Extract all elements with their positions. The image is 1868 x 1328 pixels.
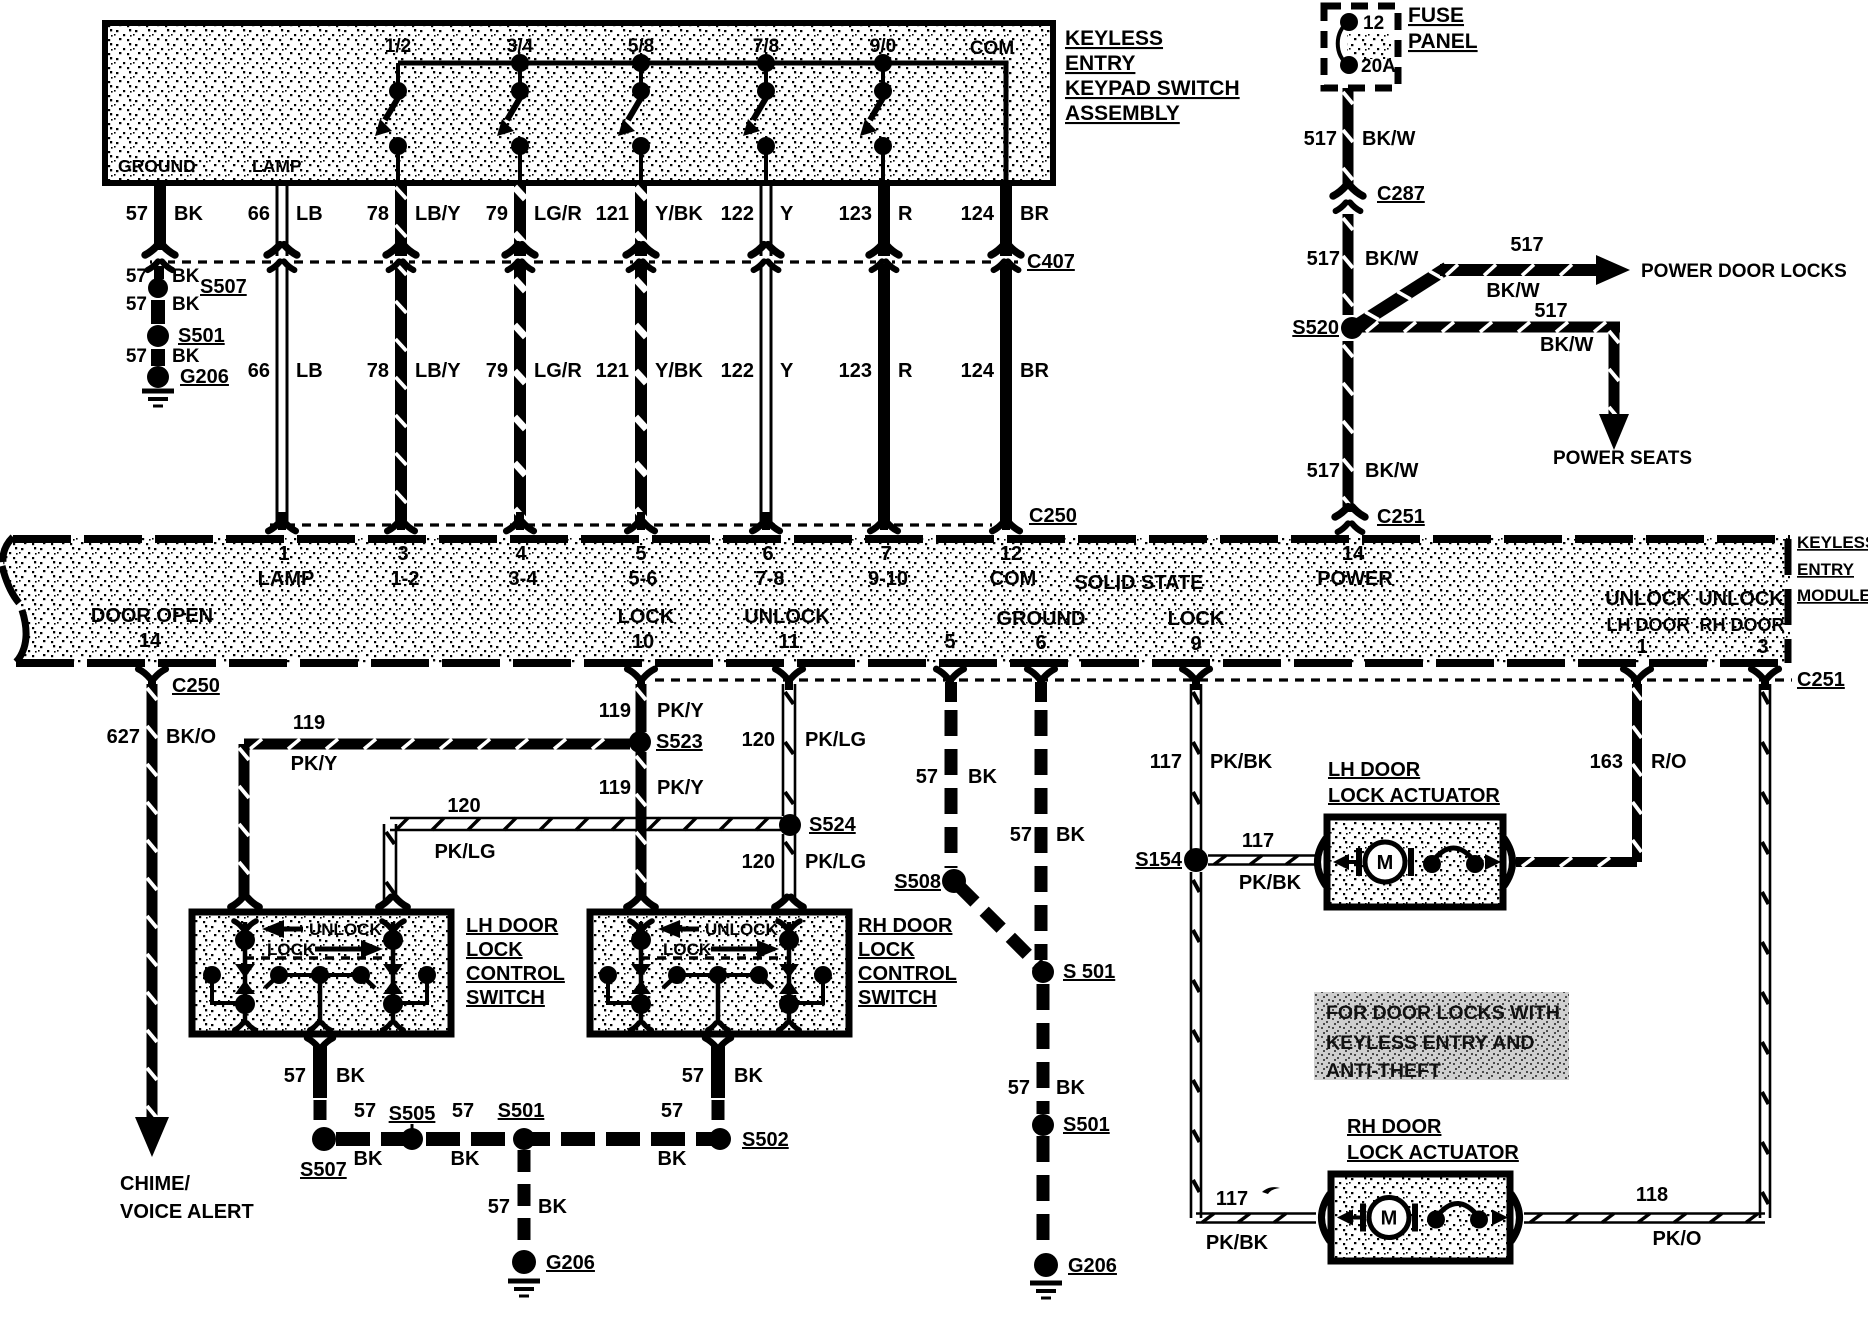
splice S507 <box>126 266 247 298</box>
connector C251 dashed line below module <box>655 669 1845 691</box>
connector C250 at wire 79 <box>506 512 533 531</box>
svg-text:PK/Y: PK/Y <box>657 777 704 799</box>
LH door lock control switch <box>192 897 451 1034</box>
svg-text:R/O: R/O <box>1651 751 1687 773</box>
svg-text:VOICE ALERT: VOICE ALERT <box>120 1201 254 1223</box>
splice S508 <box>894 869 966 893</box>
splice S523 <box>629 731 703 753</box>
svg-text:LB/Y: LB/Y <box>415 203 461 225</box>
svg-text:R: R <box>898 360 913 382</box>
svg-text:M: M <box>1381 1208 1398 1230</box>
keypad switch 5/8 <box>618 36 654 182</box>
svg-text:SOLID STATE: SOLID STATE <box>1074 572 1203 594</box>
branch wire 517 BK/W to power door locks <box>1356 234 1596 326</box>
svg-text:517: 517 <box>1534 300 1567 322</box>
svg-text:120: 120 <box>742 851 775 873</box>
branch wire 517 BK/W to power seats <box>1360 300 1620 420</box>
svg-text:BK: BK <box>354 1148 383 1170</box>
svg-text:120: 120 <box>447 795 480 817</box>
wire pin3 to RH actuator 118 PK/O <box>1524 684 1770 1250</box>
module bottom pin labels <box>91 588 1785 658</box>
svg-text:119: 119 <box>293 712 325 734</box>
svg-text:ENTRY: ENTRY <box>1065 52 1135 75</box>
svg-text:BK: BK <box>172 294 200 315</box>
svg-text:BK/W: BK/W <box>1486 280 1539 302</box>
svg-text:UNLOCK: UNLOCK <box>705 920 778 939</box>
svg-text:S501: S501 <box>178 325 225 347</box>
wire 123 R keypad <box>839 183 913 526</box>
COM bus wire <box>398 63 1006 182</box>
svg-text:RH DOOR: RH DOOR <box>1347 1116 1442 1138</box>
svg-text:UNLOCK: UNLOCK <box>1698 588 1784 610</box>
wire 66 LB keypad <box>248 183 323 526</box>
wire 117 PK/BK S154 down to RH actuator <box>1191 872 1316 1254</box>
svg-text:57: 57 <box>1010 824 1032 846</box>
svg-text:124: 124 <box>961 203 995 225</box>
connector C250 at wire 122 <box>752 512 779 531</box>
wire 57 BK to G206 <box>1037 1136 1050 1252</box>
RH door lock actuator <box>1322 1116 1520 1261</box>
svg-text:BR: BR <box>1020 203 1049 225</box>
svg-text:POWER SEATS: POWER SEATS <box>1553 448 1692 469</box>
svg-text:7-8: 7-8 <box>756 568 785 590</box>
svg-text:9/0: 9/0 <box>870 36 896 57</box>
svg-text:517: 517 <box>1510 234 1543 256</box>
svg-text:5/8: 5/8 <box>628 36 654 57</box>
svg-text:10: 10 <box>632 631 654 653</box>
svg-text:S520: S520 <box>1292 317 1339 339</box>
connector C250 at wire 124 <box>992 512 1019 531</box>
svg-text:123: 123 <box>839 203 872 225</box>
splice S154 <box>1135 848 1208 872</box>
svg-text:BK: BK <box>336 1065 365 1087</box>
ground G206 left <box>142 366 229 406</box>
svg-text:1/2: 1/2 <box>385 36 411 57</box>
ground G206 bottom center <box>508 1250 595 1296</box>
connector C250 dashed line <box>270 505 1077 527</box>
connector C407 at wire 124 <box>991 245 1021 270</box>
arrow chime/voice alert <box>120 1117 254 1223</box>
svg-text:C251: C251 <box>1377 506 1425 528</box>
svg-text:66: 66 <box>248 203 270 225</box>
svg-text:R: R <box>898 203 913 225</box>
wire 57 BK S507-S501 <box>126 294 200 324</box>
svg-text:Y/BK: Y/BK <box>655 203 703 225</box>
splice S501 lower <box>1032 1114 1110 1136</box>
svg-text:517: 517 <box>1307 460 1340 482</box>
wire 117 PK/BK pin9 to S154 <box>1150 684 1273 850</box>
svg-text:C250: C250 <box>172 675 220 697</box>
wire 121 Y/BK keypad <box>596 183 704 526</box>
svg-text:BK/W: BK/W <box>1362 128 1415 150</box>
svg-text:79: 79 <box>486 360 508 382</box>
svg-text:S508: S508 <box>894 871 941 893</box>
connector C250 at wire 123 <box>870 512 897 531</box>
wire 122 Y keypad <box>721 183 794 526</box>
svg-text:MODULE: MODULE <box>1797 586 1868 605</box>
svg-text:7: 7 <box>880 543 891 565</box>
svg-text:LAMP: LAMP <box>252 156 302 176</box>
svg-text:CONTROL: CONTROL <box>466 963 565 985</box>
svg-text:121: 121 <box>596 203 629 225</box>
wire 517 BK/W S520 to C251 <box>1307 341 1419 512</box>
svg-text:119: 119 <box>599 777 631 799</box>
svg-text:1-2: 1-2 <box>391 568 420 590</box>
svg-text:627: 627 <box>107 726 140 748</box>
svg-text:BK/W: BK/W <box>1365 460 1418 482</box>
svg-text:57: 57 <box>126 203 148 225</box>
module bottom pin fork x=950 <box>936 669 963 690</box>
svg-text:LH DOOR: LH DOOR <box>466 915 559 937</box>
connector C251 at module pin 14 <box>1335 506 1425 532</box>
wire 57 BK keypad <box>126 183 204 250</box>
svg-text:123: 123 <box>839 360 872 382</box>
svg-text:117: 117 <box>1216 1188 1248 1210</box>
module bottom pin fork x=789 <box>775 669 802 690</box>
splice S520 <box>1292 317 1363 339</box>
svg-text:6: 6 <box>1035 632 1046 654</box>
svg-text:121: 121 <box>596 360 629 382</box>
svg-text:BK: BK <box>172 266 200 287</box>
fuse panel box <box>1324 6 1398 88</box>
module title <box>1797 533 1868 605</box>
svg-text:57: 57 <box>126 346 147 367</box>
arrow power seats <box>1553 414 1692 469</box>
connector C407 at wire 79 <box>505 245 535 270</box>
module bottom pin fork x=1196 <box>1182 669 1209 690</box>
svg-text:118: 118 <box>1636 1184 1668 1206</box>
svg-text:1: 1 <box>1636 636 1647 658</box>
connector C250 label below pin 14 <box>172 675 220 697</box>
svg-text:S524: S524 <box>809 814 857 836</box>
svg-text:SWITCH: SWITCH <box>466 987 545 1009</box>
svg-text:163: 163 <box>1590 751 1623 773</box>
svg-text:LH DOOR: LH DOOR <box>1607 615 1690 635</box>
svg-text:57: 57 <box>661 1100 683 1122</box>
ground G206 center-right <box>1030 1253 1117 1298</box>
svg-text:PK/LG: PK/LG <box>805 729 866 751</box>
svg-text:PANEL: PANEL <box>1408 30 1478 53</box>
connector C407 at wire 78 <box>386 245 416 270</box>
svg-text:20A: 20A <box>1361 56 1396 77</box>
svg-text:122: 122 <box>721 203 754 225</box>
svg-text:KEYLESS: KEYLESS <box>1797 533 1868 552</box>
svg-text:FOR DOOR LOCKS WITH: FOR DOOR LOCKS WITH <box>1326 1002 1560 1024</box>
svg-text:BK: BK <box>1056 824 1085 846</box>
connector C407 at wire 122 <box>751 245 781 270</box>
wire 117 PK/BK S154 to LH actuator <box>1208 830 1316 894</box>
svg-text:117: 117 <box>1242 830 1274 852</box>
svg-text:Y: Y <box>780 203 794 225</box>
svg-text:BK/W: BK/W <box>1365 248 1418 270</box>
LH door lock actuator <box>1318 759 1513 907</box>
svg-text:S501: S501 <box>1063 1114 1110 1136</box>
svg-text:57: 57 <box>1008 1077 1030 1099</box>
svg-text:G206: G206 <box>1068 1255 1117 1277</box>
svg-text:PK/Y: PK/Y <box>657 700 704 722</box>
wire 119 PK/Y horizontal branch <box>239 712 631 900</box>
splice S524 <box>779 814 857 836</box>
svg-text:122: 122 <box>721 360 754 382</box>
svg-text:120: 120 <box>742 729 775 751</box>
svg-text:57: 57 <box>284 1065 306 1087</box>
svg-text:117: 117 <box>1150 751 1182 773</box>
connector C407 at wire 66 <box>267 245 297 270</box>
svg-text:DOOR OPEN: DOOR OPEN <box>91 605 213 627</box>
svg-text:PK/BK: PK/BK <box>1210 751 1273 773</box>
svg-text:LAMP: LAMP <box>258 568 315 590</box>
svg-text:POWER: POWER <box>1317 568 1393 590</box>
wire 627 BK/O <box>107 684 216 1122</box>
splice S507 bottom <box>300 1127 347 1181</box>
svg-text:BK: BK <box>172 346 200 367</box>
svg-text:G206: G206 <box>180 366 229 388</box>
wire 57 BK splice bus <box>336 1100 712 1170</box>
svg-text:3/4: 3/4 <box>507 36 534 57</box>
svg-text:3: 3 <box>397 543 408 565</box>
wire 57 BK S501-G206 <box>126 346 200 367</box>
LH switch bottom pin wire 57 BK <box>284 1038 366 1128</box>
svg-text:57: 57 <box>354 1100 376 1122</box>
svg-text:LOCK ACTUATOR: LOCK ACTUATOR <box>1347 1142 1519 1164</box>
svg-text:57: 57 <box>682 1065 704 1087</box>
svg-text:CONTROL: CONTROL <box>858 963 957 985</box>
svg-text:GROUND: GROUND <box>118 156 196 176</box>
svg-text:M: M <box>1377 852 1394 874</box>
svg-text:14: 14 <box>139 630 162 652</box>
svg-text:POWER DOOR LOCKS: POWER DOOR LOCKS <box>1641 261 1847 282</box>
svg-text:ASSEMBLY: ASSEMBLY <box>1065 102 1180 125</box>
svg-text:LB: LB <box>296 360 323 382</box>
keypad assembly title <box>1065 27 1240 125</box>
fuse 12 20A <box>1338 13 1396 77</box>
svg-text:RH DOOR: RH DOOR <box>858 915 953 937</box>
svg-text:PK/O: PK/O <box>1653 1228 1702 1250</box>
svg-text:SWITCH: SWITCH <box>858 987 937 1009</box>
svg-text:78: 78 <box>367 360 389 382</box>
svg-text:S501: S501 <box>498 1100 545 1122</box>
svg-text:PK/LG: PK/LG <box>434 841 495 863</box>
wire 119 PK/Y S523 to RH switch <box>599 752 705 900</box>
svg-text:BK: BK <box>1056 1077 1085 1099</box>
wire 79 LG/R keypad <box>486 183 583 526</box>
connector C250 at wire 66 <box>268 512 295 531</box>
wire 57 BK pin5 to S508 <box>916 682 998 868</box>
svg-text:UNLOCK: UNLOCK <box>309 920 382 939</box>
svg-text:BK/O: BK/O <box>166 726 216 748</box>
svg-text:119: 119 <box>599 700 631 722</box>
LH switch title <box>466 915 565 1009</box>
svg-text:LH DOOR: LH DOOR <box>1328 759 1421 781</box>
svg-text:4: 4 <box>515 543 527 565</box>
connector C407 at wire 121 <box>626 245 656 270</box>
svg-text:LOCK: LOCK <box>1168 608 1225 630</box>
svg-text:Y/BK: Y/BK <box>655 360 703 382</box>
wire 120 PK/LG pin11 to S524 <box>742 684 867 816</box>
svg-text:UNLOCK: UNLOCK <box>1605 588 1691 610</box>
svg-text:UNLOCK: UNLOCK <box>744 606 830 628</box>
svg-text:3-4: 3-4 <box>509 568 539 590</box>
svg-text:BR: BR <box>1020 360 1049 382</box>
wire 120 PK/LG horizontal branch <box>384 795 782 900</box>
connector C250 at wire 121 <box>627 512 654 531</box>
wire 163 R/O pin1 to LH actuator <box>1516 684 1687 867</box>
svg-text:LB: LB <box>296 203 323 225</box>
splice S501 bottom <box>498 1100 545 1150</box>
svg-text:124: 124 <box>961 360 995 382</box>
splice S505 <box>389 1103 436 1150</box>
keypad switch 7/8 <box>743 36 779 182</box>
svg-text:14: 14 <box>1342 543 1365 565</box>
svg-text:LOCK: LOCK <box>618 606 675 628</box>
svg-text:C251: C251 <box>1797 669 1845 691</box>
scan mark <box>1262 1187 1280 1194</box>
keypad switch 3/4 <box>497 36 534 182</box>
svg-text:LG/R: LG/R <box>534 360 582 382</box>
svg-text:PK/BK: PK/BK <box>1206 1232 1269 1254</box>
svg-text:LOCK: LOCK <box>663 940 712 959</box>
RH switch title <box>858 915 957 1009</box>
splice S 501 <box>1032 961 1115 983</box>
svg-text:BK: BK <box>734 1065 763 1087</box>
svg-text:5-6: 5-6 <box>629 568 658 590</box>
RH door lock control switch <box>590 897 849 1034</box>
svg-text:517: 517 <box>1307 248 1340 270</box>
note box keyless entry anti-theft <box>1314 992 1569 1082</box>
wire 124 BR keypad <box>961 183 1050 526</box>
svg-text:KEYLESS ENTRY AND: KEYLESS ENTRY AND <box>1326 1032 1534 1054</box>
wire 57 BK pin6 ground <box>1010 682 1086 960</box>
module top pin labels <box>258 543 1394 594</box>
svg-text:S 501: S 501 <box>1063 961 1115 983</box>
svg-text:PK/LG: PK/LG <box>805 851 866 873</box>
svg-text:66: 66 <box>248 360 270 382</box>
svg-text:BK: BK <box>538 1196 567 1218</box>
module bottom pin fork x=641 <box>627 669 654 690</box>
svg-text:57: 57 <box>488 1196 510 1218</box>
connector C287 <box>1333 183 1425 211</box>
svg-text:3: 3 <box>1757 636 1768 658</box>
svg-text:COM: COM <box>990 568 1037 590</box>
svg-text:RH DOOR: RH DOOR <box>1700 615 1785 635</box>
svg-text:BK: BK <box>451 1148 480 1170</box>
svg-text:ANTI-THEFT: ANTI-THEFT <box>1326 1060 1441 1082</box>
svg-text:C407: C407 <box>1027 251 1075 273</box>
wire 517 BK/W fuse to C287 <box>1304 88 1416 186</box>
svg-text:57: 57 <box>126 266 147 287</box>
svg-text:GROUND: GROUND <box>997 608 1086 630</box>
svg-text:S502: S502 <box>742 1129 789 1151</box>
svg-text:79: 79 <box>486 203 508 225</box>
svg-text:12: 12 <box>1000 543 1022 565</box>
svg-text:S523: S523 <box>656 731 703 753</box>
svg-text:11: 11 <box>778 631 799 653</box>
wire 120 PK/LG S524 to RH switch <box>742 834 867 900</box>
keyless entry module band <box>2 537 1790 664</box>
wire 57 BK S501 down <box>1008 984 1086 1114</box>
svg-text:CHIME/: CHIME/ <box>120 1173 190 1195</box>
splice S502 <box>709 1128 789 1151</box>
svg-text:COM: COM <box>970 38 1014 59</box>
svg-text:C250: C250 <box>1029 505 1077 527</box>
svg-text:KEYLESS: KEYLESS <box>1065 27 1163 50</box>
wire 57 BK S501 to G206 <box>488 1150 568 1248</box>
module bottom pin fork x=1041 <box>1027 669 1054 690</box>
keypad switch 9/0 <box>860 36 896 182</box>
svg-text:LOCK ACTUATOR: LOCK ACTUATOR <box>1328 785 1500 807</box>
svg-text:BK: BK <box>968 766 997 788</box>
connector C407 at wire 123 <box>869 245 899 270</box>
fuse panel title <box>1408 4 1478 53</box>
svg-text:LG/R: LG/R <box>534 203 582 225</box>
svg-text:5: 5 <box>944 631 955 653</box>
svg-text:BK: BK <box>174 203 203 225</box>
connector C250 at wire 78 <box>387 512 414 531</box>
RH switch bottom pin wire 57 BK <box>682 1038 764 1128</box>
svg-text:S507: S507 <box>300 1159 347 1181</box>
svg-text:78: 78 <box>367 203 389 225</box>
wire 119 PK/Y pin10 to S523 <box>599 684 705 732</box>
wire 78 LB/Y keypad <box>367 183 461 526</box>
svg-text:S154: S154 <box>1135 849 1183 871</box>
splice S501 left <box>147 325 225 347</box>
svg-text:57: 57 <box>916 766 938 788</box>
svg-text:57: 57 <box>126 294 147 315</box>
svg-text:G206: G206 <box>546 1252 595 1274</box>
wire 517 BK/W C287 to S520 <box>1307 214 1419 315</box>
svg-text:5: 5 <box>635 543 646 565</box>
module bottom pin fork x=152 <box>138 669 165 690</box>
svg-text:57: 57 <box>452 1100 474 1122</box>
module bottom pin fork x=1765 <box>1751 669 1778 690</box>
connector C407 dashed line <box>150 251 1075 273</box>
svg-text:9-10: 9-10 <box>868 568 908 590</box>
module bottom pin fork x=1637 <box>1623 669 1650 690</box>
svg-text:PK/BK: PK/BK <box>1239 872 1302 894</box>
svg-text:S507: S507 <box>200 276 247 298</box>
keypad switch 1/2 <box>375 36 411 182</box>
svg-text:12: 12 <box>1363 13 1384 34</box>
svg-text:C287: C287 <box>1377 183 1425 205</box>
arrow power door locks <box>1596 255 1847 285</box>
svg-text:6: 6 <box>762 543 773 565</box>
keypad switch assembly box <box>105 23 1053 183</box>
svg-text:517: 517 <box>1304 128 1337 150</box>
svg-text:1: 1 <box>278 543 289 565</box>
svg-text:LOCK: LOCK <box>267 940 316 959</box>
svg-text:Y: Y <box>780 360 794 382</box>
svg-text:KEYPAD SWITCH: KEYPAD SWITCH <box>1065 77 1240 100</box>
svg-text:PK/Y: PK/Y <box>291 753 338 775</box>
svg-text:LOCK: LOCK <box>858 939 915 961</box>
dashed wire S508 to S501 <box>958 885 1041 968</box>
svg-text:LB/Y: LB/Y <box>415 360 461 382</box>
svg-text:LOCK: LOCK <box>466 939 523 961</box>
COM label <box>970 38 1014 59</box>
connector C407 at wire 57 <box>145 245 175 270</box>
svg-text:BK: BK <box>658 1148 687 1170</box>
svg-text:S505: S505 <box>389 1103 436 1125</box>
svg-text:9: 9 <box>1190 633 1201 655</box>
svg-text:7/8: 7/8 <box>753 36 779 57</box>
svg-text:BK/W: BK/W <box>1540 334 1593 356</box>
svg-text:FUSE: FUSE <box>1408 4 1464 27</box>
svg-text:ENTRY: ENTRY <box>1797 560 1855 579</box>
